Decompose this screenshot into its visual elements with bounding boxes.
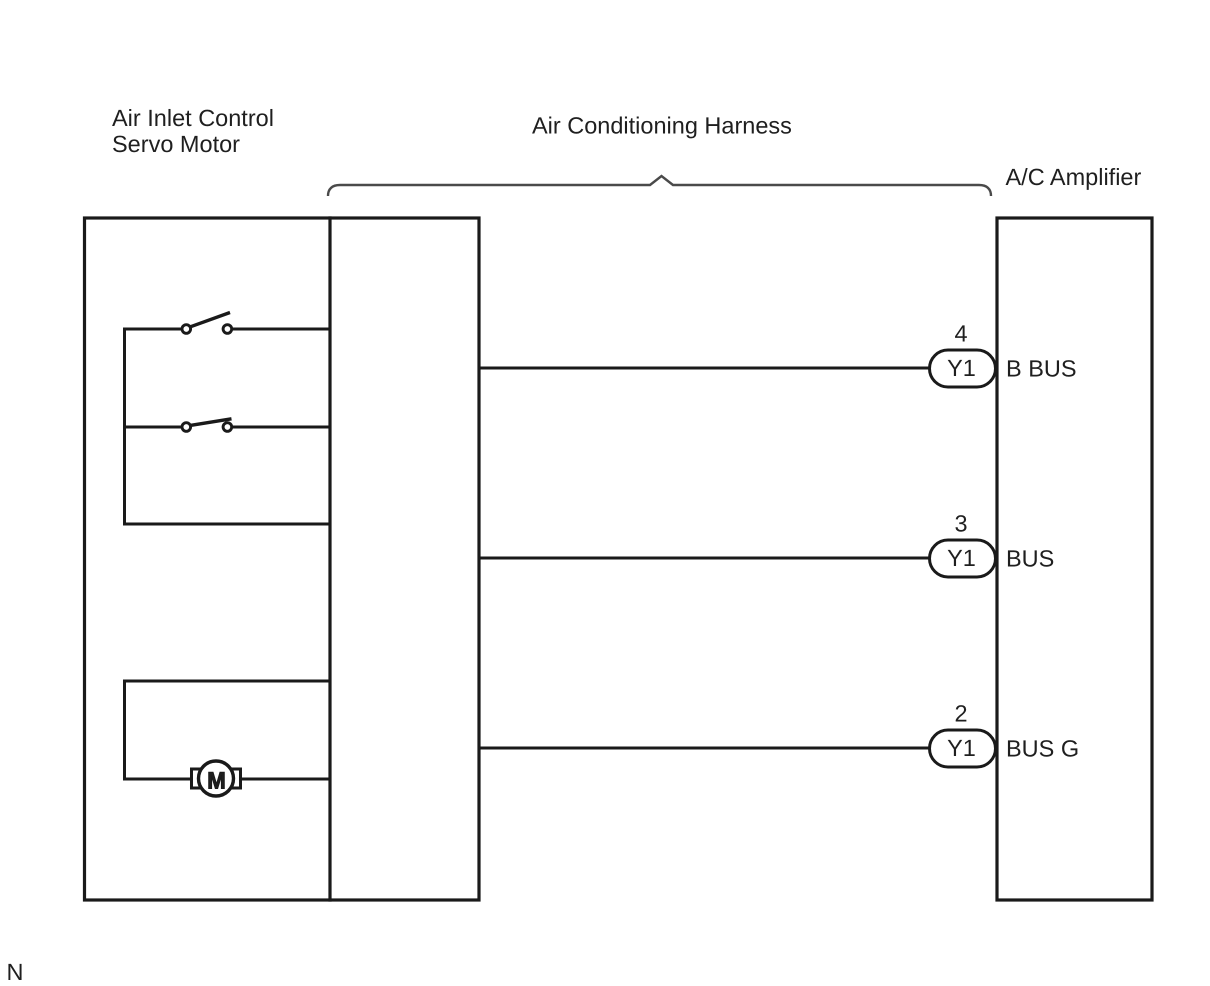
svg-text:B BUS: B BUS — [1006, 355, 1077, 381]
svg-text:BUS: BUS — [1006, 545, 1054, 571]
svg-text:M: M — [207, 768, 226, 794]
svg-text:Y1: Y1 — [947, 545, 976, 571]
svg-text:Servo Motor: Servo Motor — [112, 131, 240, 157]
svg-text:3: 3 — [954, 511, 967, 537]
svg-text:Air Inlet Control: Air Inlet Control — [112, 105, 274, 131]
svg-text:4: 4 — [954, 321, 967, 347]
svg-text:Y1: Y1 — [947, 355, 976, 381]
svg-text:Y1: Y1 — [947, 735, 976, 761]
svg-text:Air Conditioning Harness: Air Conditioning Harness — [532, 113, 792, 139]
svg-text:A/C Amplifier: A/C Amplifier — [1005, 164, 1141, 190]
svg-text:N: N — [6, 959, 23, 985]
svg-text:BUS G: BUS G — [1006, 735, 1079, 761]
svg-text:2: 2 — [954, 701, 967, 727]
